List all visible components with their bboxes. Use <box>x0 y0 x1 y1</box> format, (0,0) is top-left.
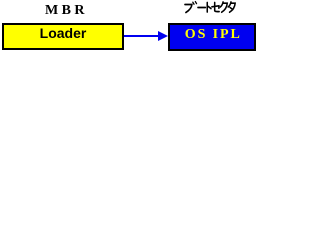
glyph long-dash <box>198 7 205 9</box>
text Loader <box>4 26 122 40</box>
glyph SE <box>212 3 219 12</box>
text OS IPL <box>185 28 242 42</box>
glyph TO <box>207 3 211 13</box>
label boot sector (Japanese katakana, drawn as SVG strokes) <box>184 0 240 14</box>
box OS IPL (boot sector blue box) <box>168 23 256 51</box>
wire arrow shaft <box>124 35 160 37</box>
box Loader (MBR yellow box) <box>2 23 124 50</box>
arrowhead <box>157 30 169 43</box>
glyph TA <box>228 2 235 12</box>
label MBR <box>45 4 88 18</box>
glyph KU <box>220 2 227 12</box>
glyph BU <box>185 5 192 13</box>
